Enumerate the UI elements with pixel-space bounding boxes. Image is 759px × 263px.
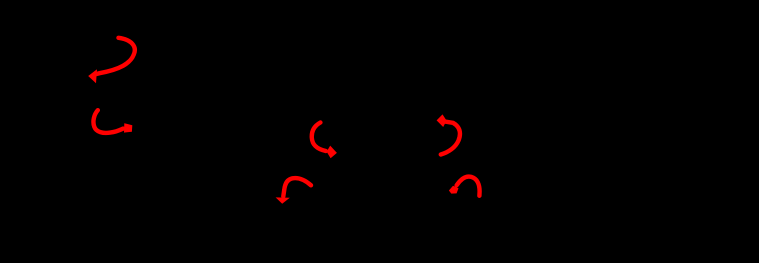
curved arrow 5 (center-right, C-curve opening left, head pointing left) [437, 114, 460, 154]
curved arrow 3 (center, C-curve opening right, diamond head pointing right) [312, 123, 337, 159]
curved arrow 1 (top-left, C-curve, head pointing left) [88, 38, 135, 83]
curved arrow 6 (center-right lower, arch right-to-left, head pointing left-down) [449, 177, 480, 196]
curved arrow 4 (center-left lower, arch right-to-left, head pointing down) [276, 178, 311, 204]
curved arrow 2 (below arrow 1, smile curve, head blob pointing up-right) [93, 110, 132, 133]
